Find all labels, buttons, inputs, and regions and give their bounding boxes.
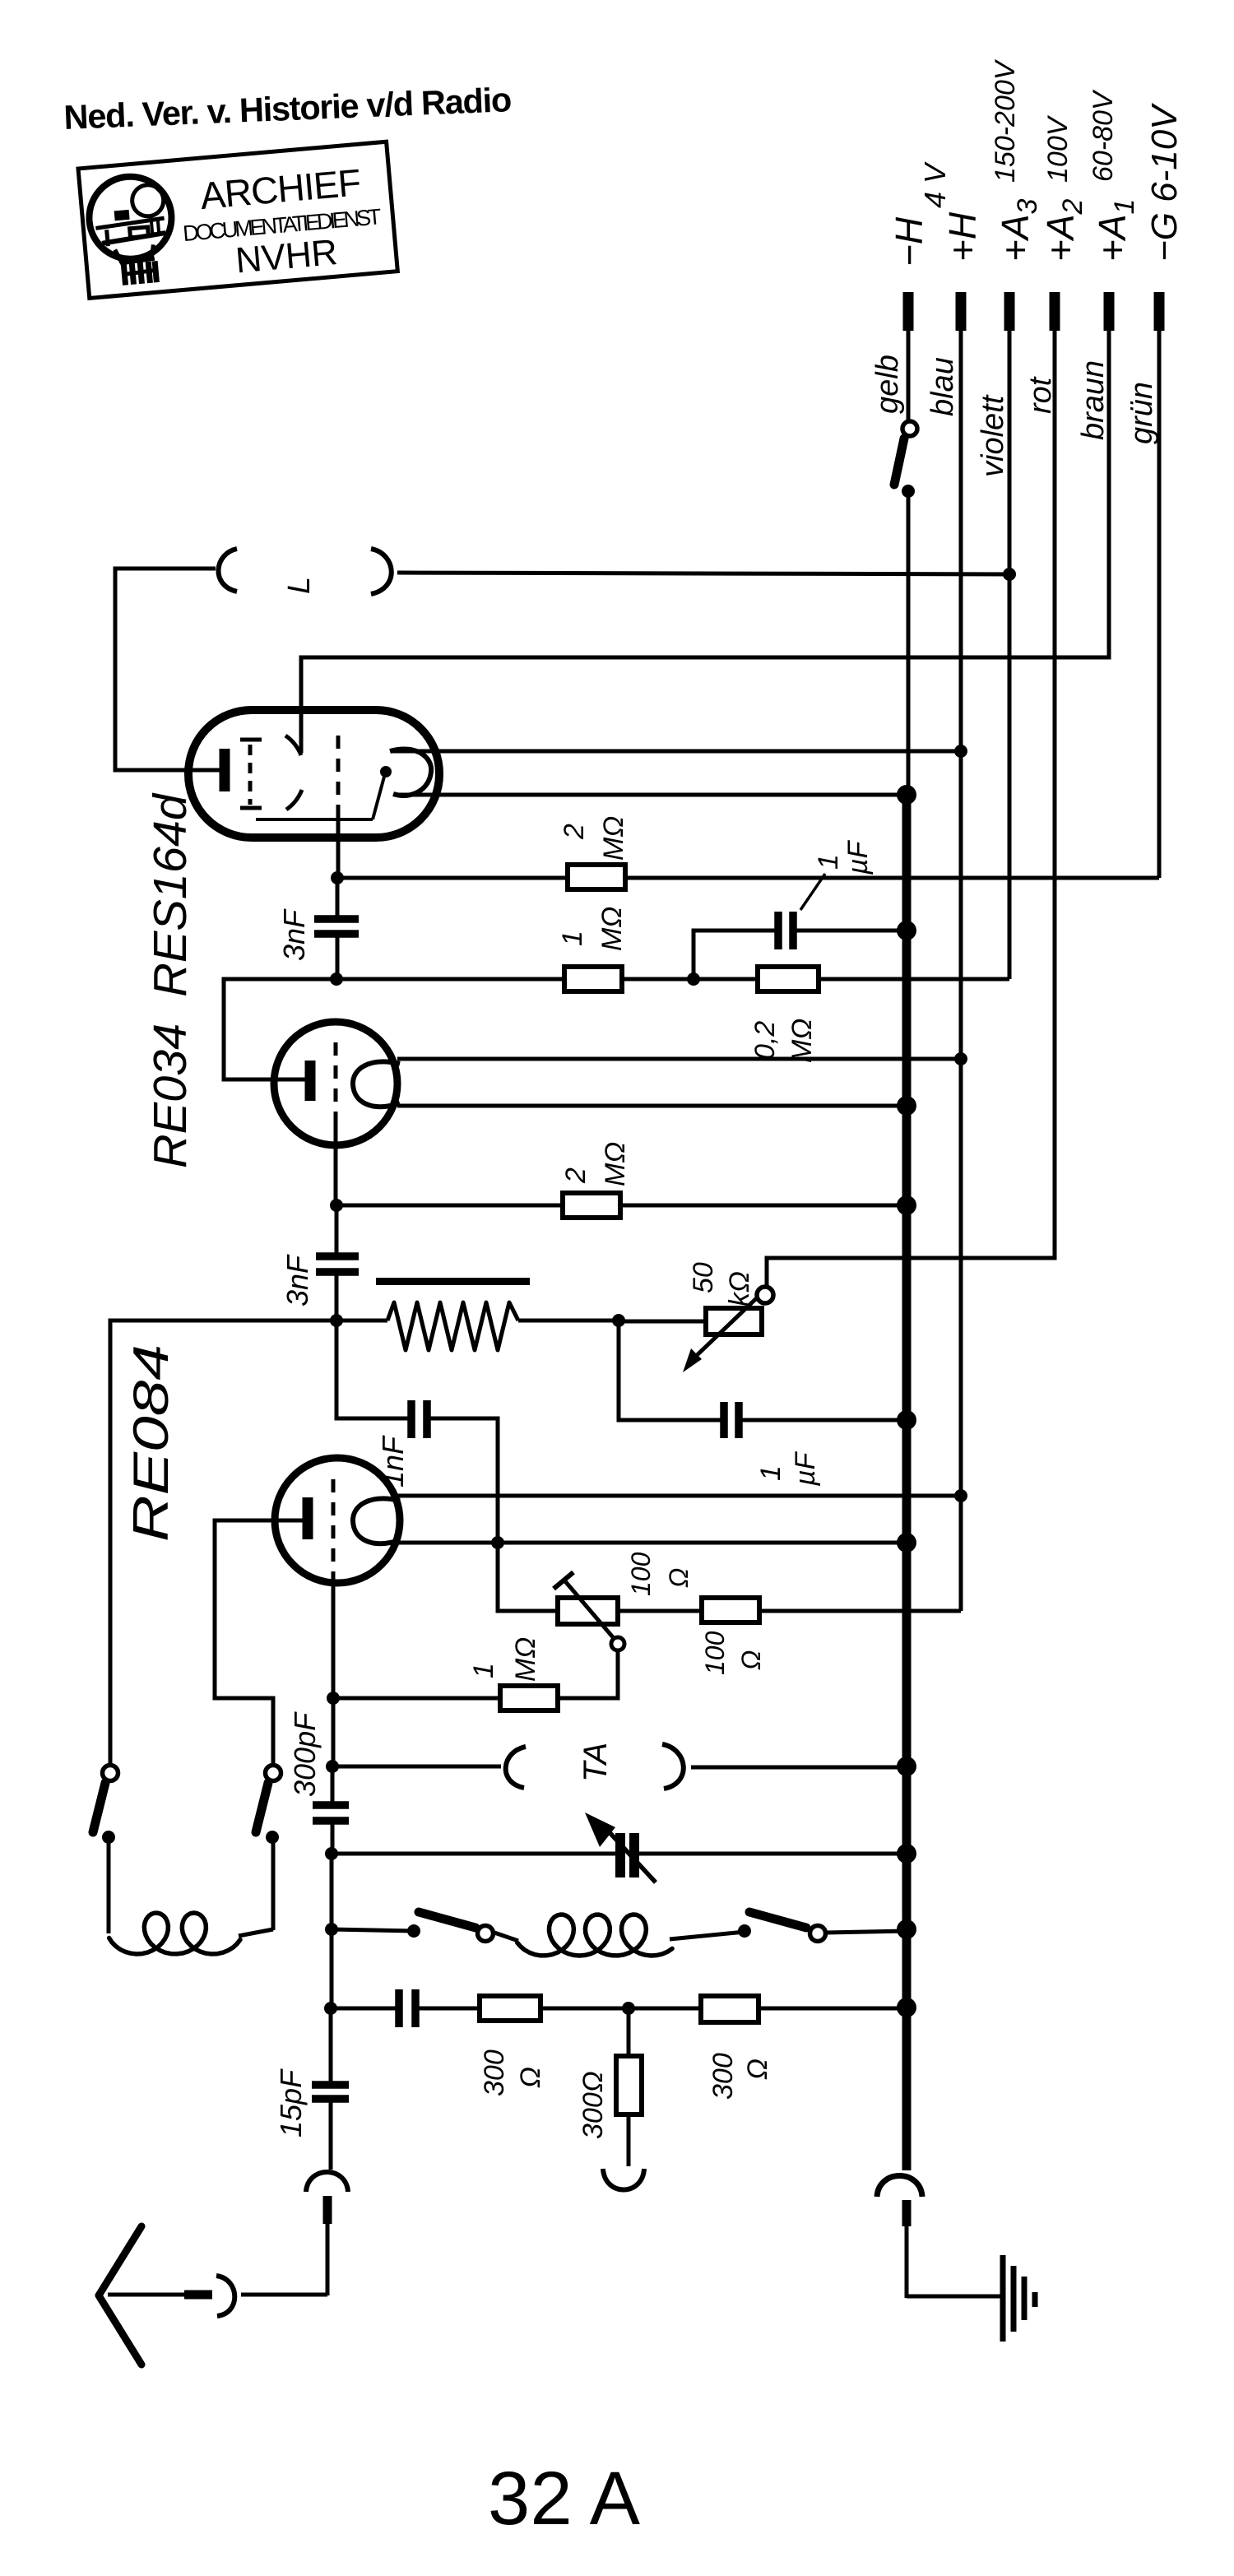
svg-text:+H: +H (941, 211, 984, 262)
RES164d control grid (dashed) (336, 736, 341, 878)
loudspeaker jack L right (371, 549, 392, 594)
RES164d anode bar (220, 749, 230, 791)
grid leak resistor 1M ohm (333, 1696, 500, 1701)
svg-text:RE034 RES164d: RE034 RES164d (144, 792, 197, 1168)
driver tube RE034 envelope (274, 1022, 397, 1145)
svg-text:100: 100 (626, 1552, 656, 1596)
svg-text:µF: µF (790, 1450, 821, 1487)
grid capacitor 1uF (to bus) (619, 1320, 907, 1438)
svg-text:300Ω: 300Ω (578, 2071, 609, 2139)
svg-text:15pF: 15pF (274, 2068, 308, 2137)
svg-text:50: 50 (688, 1262, 719, 1293)
svg-text:32 A: 32 A (488, 2457, 641, 2541)
RE084 filament loop (353, 1498, 400, 1543)
wire gruen (1157, 329, 1162, 878)
RE084 anode bar (303, 1497, 313, 1539)
antenna jack socket (306, 2172, 348, 2192)
NVHR archive stamp (78, 142, 397, 298)
bus junction y=1726 (897, 1410, 916, 1430)
volume control zigzag resistor (336, 1319, 387, 1323)
wave switch right (738, 1912, 907, 1942)
svg-text:Ω: Ω (515, 2067, 546, 2088)
regen coil (109, 1837, 273, 1954)
wire rot (767, 329, 1055, 1288)
coupling capacitor 3nF (314, 881, 359, 979)
earth resistor 300 ohm (vertical) (616, 2008, 642, 2166)
svg-text:µF: µF (842, 839, 874, 875)
RE034 filament lead - (to bus) (397, 1104, 907, 1108)
resistor 0,2M ohm (to violett) (694, 977, 758, 982)
RE034 anode bar (305, 1061, 316, 1101)
svg-text:kΩ: kΩ (724, 1271, 755, 1307)
wire gelb to bus junction (907, 491, 911, 795)
grid condenser 1nF (336, 1320, 498, 1543)
loudspeaker jack L left (218, 549, 237, 592)
svg-text:150-200V: 150-200V (990, 58, 1021, 183)
RE084 grid (dashed) (332, 1479, 336, 1698)
wire grid column (332, 1698, 336, 1766)
terminal pin braun (1104, 292, 1115, 331)
filament rheostat 100 ohm (554, 1572, 624, 1697)
svg-text:MΩ: MΩ (596, 907, 628, 951)
wire violett (1008, 329, 1012, 979)
wire gelb upper (907, 329, 911, 421)
wire junction to regen switch (far left) (110, 1320, 336, 1766)
svg-text:braun: braun (1076, 360, 1111, 440)
potentiometer 50k ohm (619, 1287, 773, 1372)
wire blau (959, 329, 963, 1611)
svg-text:1: 1 (813, 854, 844, 870)
antenna plug horizontal (216, 2276, 234, 2316)
stamp light bulb logo (86, 174, 177, 288)
node earth resistor junction (622, 2002, 635, 2015)
bus junction y=1131 (897, 921, 916, 940)
svg-text:2: 2 (559, 824, 590, 840)
svg-text:grün: grün (1125, 382, 1159, 444)
terminal pin blau (956, 292, 967, 331)
RE084 anode lead (215, 1520, 303, 1766)
svg-text:L: L (282, 577, 317, 594)
node RE084 grid leak junction (327, 1692, 340, 1705)
RE084 filament lead + (to blau) (397, 1494, 961, 1498)
RES164d filament lead - (to bus) (394, 793, 907, 797)
svg-text:2: 2 (560, 1167, 591, 1184)
bus junction y=2440 (897, 1998, 916, 2017)
node RE034 grid junction (330, 1199, 343, 1212)
svg-text:1nF: 1nF (376, 1435, 410, 1488)
bus junction y=1344 (897, 1096, 916, 1116)
bus bottom plug socket (877, 2176, 922, 2198)
phono jack TA left (332, 1765, 501, 1769)
terminal pin violett (1004, 292, 1015, 331)
svg-text:1: 1 (557, 931, 588, 946)
bus junction y=2345 (897, 1919, 916, 1939)
svg-text:violett: violett (976, 394, 1010, 477)
volume control slider bar (376, 1278, 530, 1285)
resistor 300 ohm (to bus) (629, 2007, 701, 2011)
svg-text:300: 300 (479, 2049, 510, 2096)
wire filament junction down to rheostat line (498, 1543, 558, 1611)
detector tube RE084 envelope (275, 1458, 400, 1583)
svg-text:MΩ: MΩ (598, 816, 629, 861)
svg-text:TA: TA (578, 1743, 614, 1782)
node TA junction (326, 1760, 339, 1773)
RES164d screen grid hooks (285, 736, 302, 810)
terminal pin grün (1154, 292, 1165, 331)
svg-text:gelb: gelb (870, 355, 905, 414)
wave switch left (332, 1912, 494, 1942)
terminal pin rot (1050, 292, 1060, 331)
svg-text:3nF: 3nF (281, 1254, 314, 1307)
main bus (gelb / -H rail) (902, 793, 912, 2170)
node coil line junction (325, 1923, 338, 1936)
bus junction y=2253 (897, 1844, 916, 1864)
wavetrap capacitor (331, 1989, 480, 2027)
decoupling capacitor 1uF (to bus) (694, 912, 907, 979)
svg-text:100V: 100V (1042, 114, 1074, 183)
RES164d filament lead + (to blau) (391, 750, 961, 754)
grid series capacitor 300pF (313, 1766, 349, 1854)
regen switch right (256, 1766, 281, 1845)
bus junction y=2147 (897, 1757, 916, 1776)
node junction 0,2M / 1uF (687, 972, 700, 986)
svg-text:0,2: 0,2 (749, 1021, 781, 1060)
grid leak resistor 2M ohm (to bus) (336, 1204, 563, 1208)
RE034 filament loop (353, 1061, 400, 1107)
RE084 filament lead - (to bus) (397, 1541, 907, 1545)
svg-text:100: 100 (700, 1631, 730, 1675)
svg-text:MΩ: MΩ (510, 1637, 541, 1682)
RES164d grid bracket (240, 740, 262, 808)
phono jack TA right (662, 1744, 684, 1789)
svg-text:RE084: RE084 (123, 1344, 179, 1542)
bus junction y=1875 (897, 1533, 916, 1553)
bus junction y=1465 (897, 1195, 916, 1215)
svg-text:1: 1 (468, 1663, 499, 1678)
series capacitor 15pF (312, 2008, 349, 2170)
RE034 anode lead (224, 979, 336, 1079)
svg-text:1: 1 (755, 1465, 786, 1481)
RE034 filament lead + (to blau) (397, 1057, 961, 1061)
label 1uF with leader (800, 874, 825, 910)
antenna symbol (99, 2226, 141, 2365)
RES164d filament loop (256, 750, 431, 819)
tuning variable capacitor (332, 1812, 907, 1882)
svg-text:4 V: 4 V (918, 161, 952, 208)
antenna plug pin (323, 2196, 332, 2224)
svg-text:Ω: Ω (742, 2058, 773, 2080)
svg-text:Ω: Ω (664, 1568, 694, 1588)
node RES164d grid junction (331, 871, 344, 884)
wavetrap resistor 300 ohm (480, 1996, 540, 2021)
svg-text:−G 6-10V: −G 6-10V (1144, 103, 1185, 262)
anode load resistor 1M ohm (336, 977, 564, 982)
svg-text:300pF: 300pF (288, 1711, 322, 1797)
terminal pin gelb (903, 292, 914, 331)
RE034 grid (dashed) (334, 1042, 338, 1205)
node tuning capacitor junction (325, 1847, 338, 1860)
node volume/50k junction (612, 1314, 625, 1327)
output tube RES164d envelope (188, 710, 439, 838)
node wavetrap junction (324, 2002, 337, 2015)
svg-text:300: 300 (707, 2053, 739, 2100)
node RE034 anode junction (330, 972, 343, 986)
svg-text:MΩ: MΩ (600, 1142, 631, 1186)
svg-text:Ω: Ω (736, 1650, 766, 1670)
svg-text:−H: −H (888, 216, 930, 267)
switch on gelb wire (902, 421, 917, 436)
svg-text:blau: blau (925, 357, 960, 416)
coupling capacitor 3nF (second) (316, 1209, 359, 1321)
wire braun (301, 329, 1109, 753)
wire L left to output tube anode (115, 569, 220, 770)
regen switch left (93, 1766, 118, 1845)
node detector output junction (330, 1314, 343, 1327)
grid leak resistor 2M ohm (to gruen) (337, 876, 568, 880)
header text Ned. Ver. v. Historie v/d Radio (63, 80, 513, 137)
fixed resistor 100 ohm (to blau) (618, 1609, 702, 1613)
svg-text:3nF: 3nF (277, 908, 311, 961)
svg-text:60-80V: 60-80V (1088, 89, 1119, 182)
wire L right to violett (397, 573, 1009, 574)
bus junction y=966 (897, 785, 916, 805)
earth socket jack (603, 2169, 644, 2190)
ground symbol (1003, 2255, 1035, 2342)
svg-text:MΩ: MΩ (786, 1019, 818, 1063)
tuning coil (494, 1915, 745, 1956)
